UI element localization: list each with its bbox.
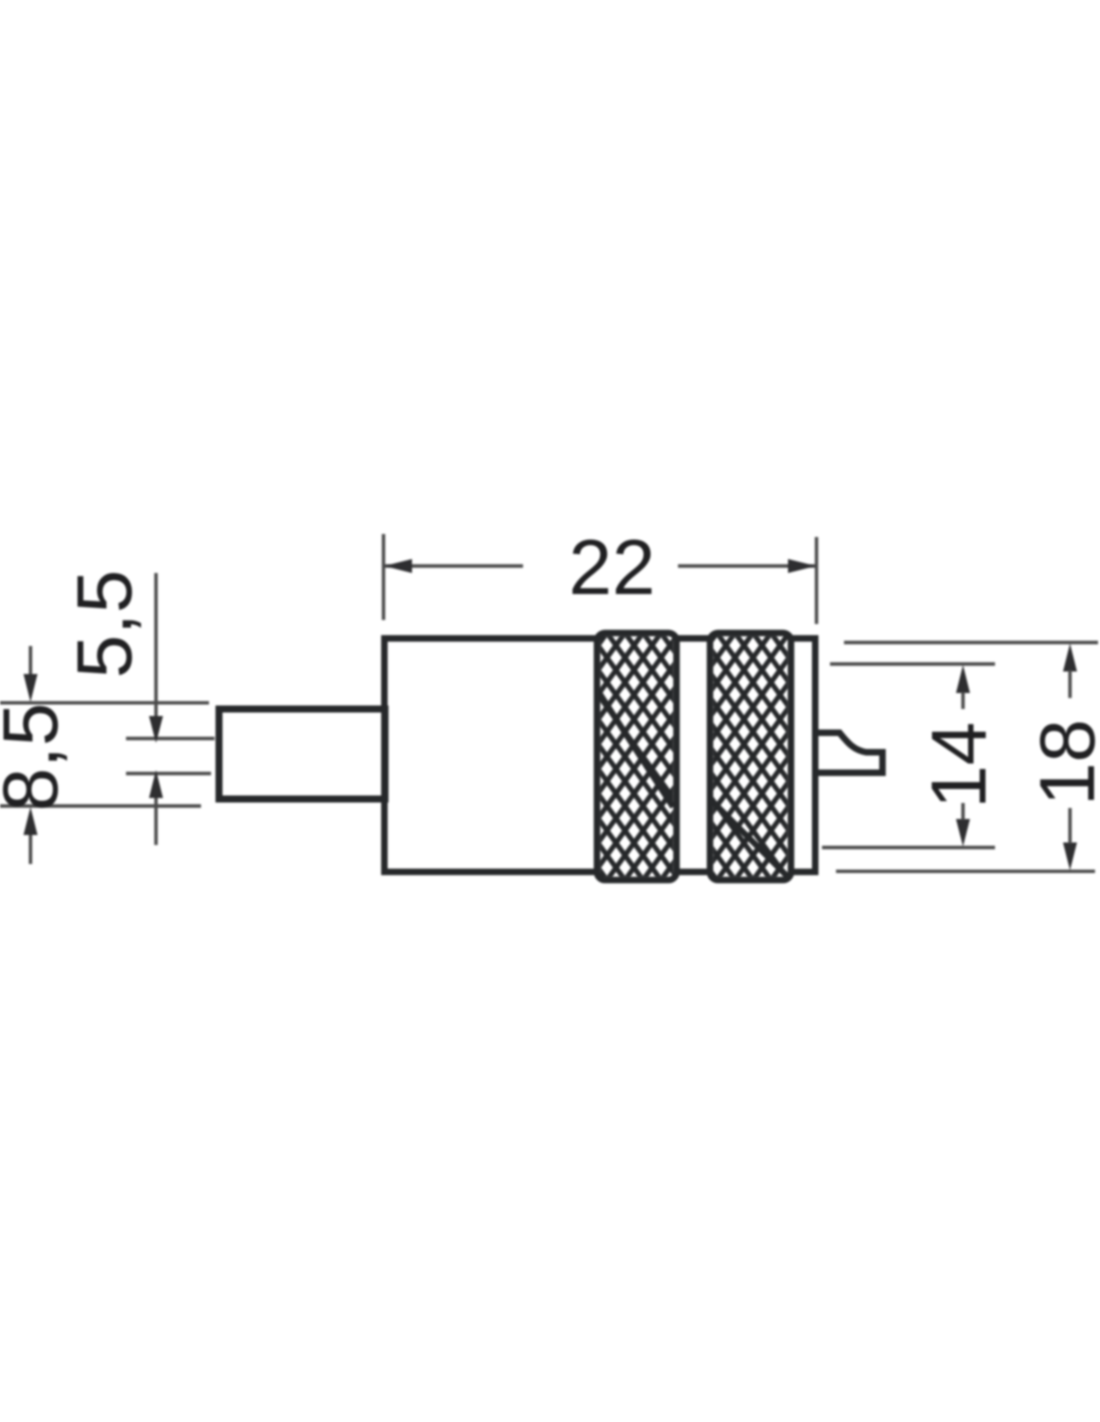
dim 14: upper extension line xyxy=(830,662,995,665)
dim 18: upper arrow xyxy=(1063,644,1077,672)
dim 18: upper extension line xyxy=(844,641,1098,644)
dim 8,5: upper extension line xyxy=(0,701,209,704)
dim 8,5: lower arrow xyxy=(29,835,32,864)
dim 14: lower extension line xyxy=(822,846,995,849)
dim 18: lower arrow xyxy=(1063,843,1077,871)
dim 22: right extension line xyxy=(815,537,818,624)
solder/index tab on right face xyxy=(818,733,883,773)
knurl band 1 outline xyxy=(597,633,677,880)
dim 18: lower extension line xyxy=(836,870,1095,873)
knurl band 1 heavy diagonal xyxy=(598,691,673,807)
svg-text:22: 22 xyxy=(569,523,656,611)
dim 22: left extension line xyxy=(382,534,385,620)
dim 22: left dimension line xyxy=(385,564,523,567)
knurl band 1 cross-hatch xyxy=(600,636,673,877)
knurl band 2 outline xyxy=(710,633,791,880)
dim 22: left arrowhead xyxy=(384,559,412,573)
dim 14: upper arrow xyxy=(956,665,970,693)
knurl band 2 heavy diagonal xyxy=(711,800,789,878)
dim 14: lower arrow xyxy=(956,819,970,847)
svg-text:5,5: 5,5 xyxy=(60,570,148,678)
dim 8,5: lower extension line xyxy=(0,804,201,807)
svg-text:18: 18 xyxy=(1023,719,1100,806)
cable entry sleeve xyxy=(219,709,385,799)
svg-text:14: 14 xyxy=(915,722,1003,809)
dim 22: right arrowhead xyxy=(788,559,816,573)
dim 8,5: upper arrow xyxy=(29,646,32,677)
dim 5,5: upper tick line xyxy=(126,737,215,740)
connector body (main cylinder) xyxy=(384,638,815,872)
knurl band 2 cross-hatch xyxy=(713,636,788,877)
dim 22: right dimension line xyxy=(678,564,815,567)
svg-text:8,5: 8,5 xyxy=(0,703,74,811)
dim 5,5: lower arrow xyxy=(154,798,157,845)
dim 5,5: upper arrow with long leader xyxy=(154,573,157,717)
dim 5,5: lower tick line xyxy=(126,772,211,775)
